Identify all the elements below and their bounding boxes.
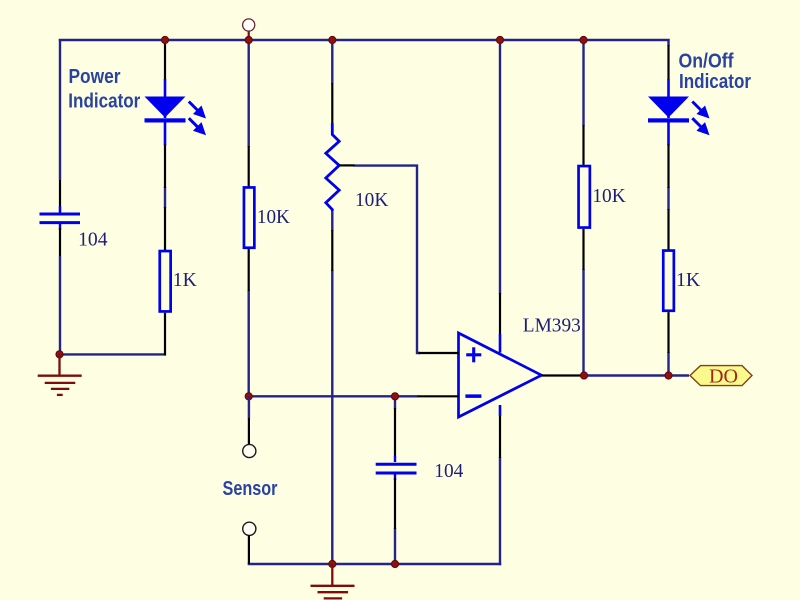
junction VCC/R2 — [245, 36, 252, 43]
resistor R2 — [244, 187, 254, 247]
resistor R1 — [160, 251, 171, 311]
svg-text:10K: 10K — [257, 206, 290, 228]
connector J1 sensor pin 1 — [243, 444, 256, 457]
LED D2 pin 2 — [667, 145, 669, 189]
wire VCC rail corner to LED2 — [667, 39, 669, 46]
capacitor C2 pin 2 — [394, 478, 396, 529]
resistor R5 — [663, 251, 674, 311]
op-amp U1 inverting input pin — [418, 395, 460, 397]
wire R5 bottom to DO net — [667, 352, 669, 376]
resistor R4 — [579, 166, 590, 228]
wire inverting net horizontal — [248, 395, 419, 397]
ground GND2 — [311, 564, 355, 598]
op-amp U1 V+ pin — [499, 293, 501, 334]
potentiometer RP1 pin 3 — [331, 230, 333, 271]
wire U1 V- pin to bottom rail — [499, 457, 501, 565]
wire LED1 to R1 — [164, 187, 166, 208]
resistor R4 pin 1 — [582, 125, 584, 165]
junction VCC/U1 — [496, 36, 503, 43]
svg-text:104: 104 — [434, 460, 463, 482]
resistor R4 pin 2 — [582, 229, 584, 270]
junction output/R4 — [580, 372, 587, 379]
wire RP1 zigzag lower stub — [331, 209, 333, 231]
capacitor C1 — [40, 206, 81, 230]
svg-text:1K: 1K — [173, 269, 197, 291]
junction R2/inverting — [245, 393, 252, 400]
LED D2 pin 1 — [667, 45, 669, 80]
wire inverting node to C2 top — [394, 396, 396, 409]
op-amp U1 non-inverting input pin — [419, 352, 460, 354]
wire C1 to ground node — [59, 256, 61, 354]
svg-text:10K: 10K — [592, 185, 625, 207]
wire VCC rail to LED1 (short) — [164, 40, 166, 42]
svg-text:Indicator: Indicator — [68, 91, 140, 113]
svg-text:On/Off: On/Off — [679, 51, 734, 73]
junction VCC/RP1 — [329, 36, 336, 43]
wire VCC rail to U1 V+ pin — [499, 40, 501, 294]
connector J1 sensor pin 2 — [243, 522, 256, 535]
ground GND1 node dot — [56, 351, 63, 358]
wire ground node to R1 bottom — [59, 353, 166, 355]
junction VCC/LED1 — [161, 36, 168, 43]
capacitor C1 pin 1 — [59, 180, 61, 212]
svg-text:DO: DO — [709, 365, 738, 387]
svg-text:104: 104 — [78, 229, 108, 251]
resistor R2 pin 2 — [248, 249, 250, 291]
wire RP1 wiper to non-inverting input — [354, 166, 421, 353]
wire U1 output to DO — [582, 374, 689, 376]
wire bottom rail — [248, 563, 502, 565]
op-amp U1 — [459, 333, 542, 417]
svg-text:LM393: LM393 — [523, 314, 581, 336]
potentiometer RP1 pin 1 — [331, 83, 333, 124]
capacitor C2 pin 1 — [394, 408, 396, 457]
wire left column down to C1 — [59, 39, 61, 180]
wire LED2 to R5 — [667, 187, 669, 210]
svg-text:1K: 1K — [676, 269, 700, 291]
wire VCC rail to R4 top — [582, 40, 584, 126]
capacitor C1 pin 2 — [59, 228, 61, 256]
resistor R2 pin 1 — [248, 146, 250, 187]
potentiometer RP1 — [326, 123, 339, 211]
potentiometer RP1 wiper pin — [339, 164, 354, 166]
resistor R1 pin 1 — [164, 207, 166, 250]
junction bottom/RP1/GND2 — [329, 560, 336, 567]
port DO — [690, 365, 752, 387]
svg-text:10K: 10K — [355, 189, 388, 211]
resistor R5 pin 2 — [667, 312, 669, 353]
wire RP1 bottom to bottom rail — [331, 270, 333, 564]
resistor R5 pin 1 — [667, 209, 669, 250]
svg-text:Power: Power — [69, 66, 121, 88]
svg-text:Sensor: Sensor — [223, 478, 278, 500]
junction output/R5 — [665, 372, 672, 379]
power port VCC — [243, 19, 255, 40]
wire R2 bottom to inverting node — [247, 290, 249, 396]
wire inverting node to sensor pin 1 — [248, 396, 250, 418]
wire C2 bottom to bottom rail — [394, 528, 396, 564]
wire VCC rail to R2 top — [247, 40, 249, 147]
op-amp U1 V- pin — [499, 416, 501, 458]
wire top rail VCC — [59, 39, 670, 41]
capacitor C2 — [376, 456, 417, 480]
junction bottom/C2 — [391, 560, 398, 567]
LED D1 pin 1 — [164, 41, 166, 80]
ground GND1 — [38, 354, 82, 395]
junction VCC/R4 — [580, 36, 587, 43]
wire R4 bottom to DO net — [582, 269, 584, 376]
svg-text:Indicator: Indicator — [679, 71, 751, 93]
op-amp U1 output pin — [542, 374, 584, 376]
LED D2 — [648, 79, 707, 146]
connector J1 sensor pin 1 lead — [248, 418, 250, 445]
junction C2/inverting — [391, 393, 398, 400]
LED D1 — [145, 79, 204, 146]
wire VCC rail to RP1 top — [331, 40, 333, 84]
resistor R1 pin 2 — [164, 313, 166, 356]
LED D1 pin 2 — [164, 145, 166, 189]
connector J1 sensor pin 2 lead — [248, 536, 250, 564]
